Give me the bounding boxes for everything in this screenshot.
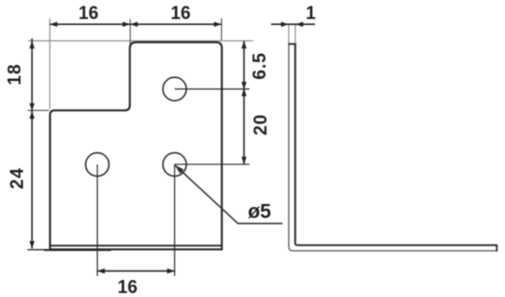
svg-text:1: 1 — [306, 3, 316, 23]
svg-text:ø5: ø5 — [248, 201, 271, 223]
svg-text:16: 16 — [78, 3, 98, 23]
svg-text:6.5: 6.5 — [249, 52, 269, 79]
svg-text:16: 16 — [171, 3, 191, 23]
svg-text:16: 16 — [117, 277, 137, 297]
svg-text:24: 24 — [7, 167, 27, 189]
svg-text:18: 18 — [4, 64, 24, 86]
svg-text:20: 20 — [251, 114, 271, 136]
